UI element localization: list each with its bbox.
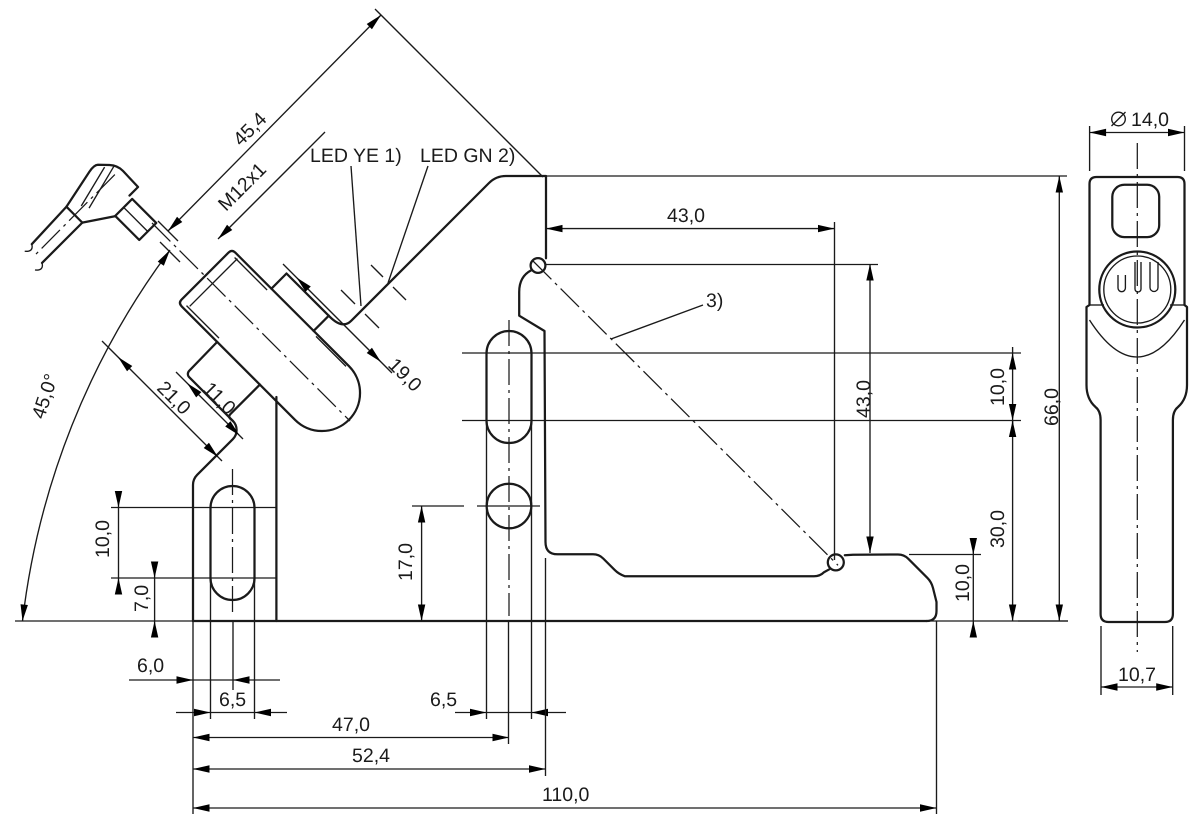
- coupling nut square: [115, 199, 156, 240]
- 43,0 right vertical dim: [869, 264, 871, 553]
- sleeve inner thin line: [316, 336, 346, 366]
- svg-text:LED YE 1): LED YE 1): [310, 145, 402, 167]
- clamp front face segments: [314, 316, 329, 331]
- connector circles: [1099, 252, 1175, 328]
- svg-text:6,0: 6,0: [137, 655, 164, 677]
- left slot stadium: [211, 486, 255, 600]
- 43,0 top dim: [546, 228, 835, 230]
- 6,5 left dim: [176, 712, 287, 714]
- 10,0 right dim: [1012, 347, 1014, 426]
- 19,0 dim: [283, 264, 392, 373]
- collar top arc: [1090, 320, 1185, 357]
- 52,4 dim: [193, 768, 546, 770]
- svg-text:10,7: 10,7: [1118, 664, 1156, 686]
- elbow boot: [60, 154, 142, 236]
- pins: [1135, 262, 1141, 292]
- bracket outline P3: flap, top, right edge, steps, flange, right end: [271, 176, 936, 621]
- inner rounded square: [1112, 185, 1159, 237]
- side centerline: [1136, 143, 1138, 652]
- LED leaders and dashes: [351, 166, 361, 306]
- 21,0 dim: [102, 341, 222, 461]
- 6,5 right dim: [455, 712, 566, 714]
- y264 ext: [545, 264, 878, 266]
- cable centerline: [33, 175, 115, 257]
- svg-text:30,0: 30,0: [987, 510, 1009, 548]
- 66,0 dim: [1058, 176, 1060, 621]
- svg-text:14,0: 14,0: [1131, 109, 1169, 131]
- svg-text:6,5: 6,5: [219, 689, 246, 711]
- notch circle bottom-right: [828, 554, 844, 570]
- boot mold lines: [81, 166, 123, 208]
- svg-text:66,0: 66,0: [1041, 388, 1063, 426]
- svg-text:10,0: 10,0: [92, 520, 114, 558]
- left slot vertical centerline: [232, 469, 234, 612]
- svg-text:47,0: 47,0: [332, 714, 370, 736]
- svg-text:43,0: 43,0: [853, 380, 875, 418]
- svg-text:10,0: 10,0: [987, 368, 1009, 406]
- side seam ticks: [1090, 304, 1105, 306]
- mid slot vertical centerline: [508, 320, 510, 616]
- svg-text:17,0: 17,0: [395, 543, 417, 581]
- bottom vertical extension lines: [192, 621, 194, 814]
- dia 14,0 dim: [1089, 126, 1091, 171]
- M12x1 label: [218, 132, 325, 239]
- 6,0 dim: [129, 679, 280, 681]
- sensor barrel closed outline: [180, 251, 360, 431]
- bracket outline P1: leg left edge, 45 lower edge, clamp bottom, clamp rear face lower segment: [188, 342, 237, 621]
- left leg bend line: [275, 397, 277, 621]
- svg-text:7,0: 7,0: [131, 585, 153, 612]
- 7,0 dim: [154, 562, 156, 637]
- 10,0 left dim: [118, 492, 120, 594]
- svg-text:52,4: 52,4: [352, 745, 390, 767]
- baseline: [15, 620, 1068, 622]
- svg-text:43,0: 43,0: [667, 205, 705, 227]
- 3) leader: [611, 305, 703, 339]
- 45,4 dim: [168, 15, 381, 231]
- 11,0 dim: [176, 372, 243, 439]
- bracket bottom edge (thick overlay): [193, 620, 927, 622]
- cable: [30, 207, 67, 244]
- 45 degree arc dim: [23, 250, 171, 621]
- svg-text:110,0: 110,0: [542, 784, 590, 806]
- diagonal dash-dot 3): [533, 261, 838, 565]
- 10,0 bottom-right dim: [909, 554, 981, 556]
- svg-text:10,0: 10,0: [952, 564, 974, 602]
- 10,7 dim: [1100, 626, 1102, 695]
- svg-text:6,5: 6,5: [430, 689, 457, 711]
- thread root lines: [235, 258, 268, 291]
- sensor axis centerline: [152, 223, 350, 421]
- side outer profile: [1087, 177, 1188, 622]
- notch circle top-left: [531, 258, 546, 273]
- mid slot stadium: [487, 331, 532, 443]
- svg-text:3): 3): [706, 290, 723, 312]
- mid circle hole: [487, 484, 532, 529]
- CONNECTOR group (rotated 45 about interface center 164,235): [13, 154, 166, 307]
- 30,0 dim: [1012, 421, 1014, 622]
- 110,0 dim: [193, 807, 937, 809]
- svg-text:LED GN 2): LED GN 2): [420, 145, 515, 167]
- top edge extension line: [546, 175, 1067, 177]
- y353 and y420.5 ext lines: [462, 352, 1021, 354]
- 47,0 dim: [193, 737, 509, 739]
- 17,0 dim: [412, 505, 464, 507]
- left leg horizontals: [111, 507, 277, 509]
